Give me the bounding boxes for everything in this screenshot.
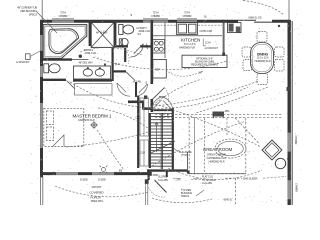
outlet dots xyxy=(93,25,290,126)
window: right wall mid xyxy=(288,133,290,200)
closet shelves xyxy=(140,98,149,166)
great room dashed oval xyxy=(215,139,246,158)
svg-text:OPEN TO ABOVE: OPEN TO ABOVE xyxy=(207,153,227,156)
wall: hall jog lower xyxy=(143,107,152,110)
wall: CLO bottom xyxy=(112,70,126,72)
wall: shower/half-bath divider xyxy=(114,21,116,48)
great room upper dashed lines xyxy=(155,114,283,117)
porch right edge below entry xyxy=(146,184,148,205)
electrical arc porch xyxy=(55,186,148,197)
great room dashed box xyxy=(189,118,259,205)
door: hall to stairs xyxy=(152,96,166,109)
svg-text:D-3050: D-3050 xyxy=(80,178,88,181)
svg-text:6068 SL.GD: 6068 SL.GD xyxy=(249,17,262,20)
leader: 6040 slider to window xyxy=(263,177,286,179)
leader: sloped-flat connector xyxy=(191,178,207,180)
electrical arc dining-greatroom xyxy=(196,87,268,113)
window: top wall w1 xyxy=(52,19,74,22)
electrical arc bath cluster xyxy=(80,48,142,55)
wall: main vertical spine xyxy=(151,21,154,112)
svg-text:ABV: ABV xyxy=(225,110,230,113)
ceiling projection dashes xyxy=(205,118,228,174)
window: left wall upper xyxy=(40,35,42,77)
svg-text:48" DBL VAN: 48" DBL VAN xyxy=(79,62,93,65)
note: porch xyxy=(89,185,104,203)
kitchen west counter edge xyxy=(164,22,166,58)
wall: master bath south (tub room) xyxy=(43,58,72,60)
window: top wall w2 xyxy=(143,19,168,22)
window: bottom wall pair xyxy=(56,173,114,175)
note: top wall chamber labels xyxy=(59,12,262,20)
dining chairs xyxy=(242,32,284,85)
toilet: master WC xyxy=(44,64,60,73)
svg-text:CLG ABV: CLG ABV xyxy=(158,179,169,182)
siding outer line right xyxy=(291,21,293,205)
svg-text:CHMBR: CHMBR xyxy=(151,15,160,18)
svg-text:CLO: CLO xyxy=(136,116,141,119)
electrical arc top right xyxy=(243,1,284,15)
svg-text:KITCHEN: KITCHEN xyxy=(181,38,200,43)
door: kitchen to hall xyxy=(153,88,165,100)
light dot bath xyxy=(79,55,82,58)
note: island xyxy=(191,57,218,74)
svg-text:D-3050: D-3050 xyxy=(98,178,106,181)
electrical arc bath-top xyxy=(122,47,129,64)
scan speckle xyxy=(30,5,303,203)
svg-text:OVHD CAB: OVHD CAB xyxy=(200,30,213,33)
wall: CLO right xyxy=(124,48,126,62)
svg-text:ARDL FLR: ARDL FLR xyxy=(85,52,97,55)
window: left wall hatched band xyxy=(40,103,43,148)
wall: hall center stub xyxy=(135,82,137,97)
svg-text:PRES MTG: PRES MTG xyxy=(91,200,104,203)
svg-text:SPECS: SPECS xyxy=(181,195,189,198)
wall: tub/shower divider xyxy=(89,21,91,46)
door: hall swing b xyxy=(136,84,148,96)
island xyxy=(182,55,227,67)
bed dashed xyxy=(44,108,84,146)
entry switch blob xyxy=(149,172,152,176)
kitchen counter north edge xyxy=(153,35,222,37)
electrical arc greatroom b xyxy=(152,121,246,166)
wall junction marks xyxy=(40,20,290,178)
door: half bath xyxy=(131,44,144,57)
disconnect box xyxy=(26,54,31,60)
ceiling fan xyxy=(90,121,98,129)
svg-text:CARPETD FLR: CARPETD FLR xyxy=(78,119,95,122)
electrical arc bedroom c xyxy=(97,130,124,170)
electrical arc greatroom a xyxy=(155,104,261,147)
corner tub xyxy=(49,29,79,54)
wall: right exterior xyxy=(288,20,291,205)
svg-text:GREAT ROOM: GREAT ROOM xyxy=(203,147,233,152)
front door xyxy=(155,180,167,193)
tv console xyxy=(213,112,225,119)
roofline above top-left corner xyxy=(41,0,43,20)
electrical arc hall-kitchen xyxy=(150,79,202,108)
kitchen sink xyxy=(177,23,198,35)
stairs up arrow xyxy=(155,122,158,152)
note: mbath xyxy=(84,48,96,55)
toilet: half bath xyxy=(119,25,134,35)
svg-text:(TYP): (TYP) xyxy=(181,154,187,157)
svg-text:HARDWD FLR: HARDWD FLR xyxy=(209,160,225,163)
wall: stairs east xyxy=(172,108,174,170)
hall dark mark xyxy=(144,96,147,100)
svg-text:CLO: CLO xyxy=(140,152,145,155)
note: dining xyxy=(255,52,271,62)
svg-text:HARDWD FLR: HARDWD FLR xyxy=(255,60,271,63)
svg-text:CHMBR: CHMBR xyxy=(294,136,297,145)
wall: vanity back xyxy=(73,79,112,81)
shower stall xyxy=(91,22,114,47)
porch edge xyxy=(41,176,43,205)
electrical arc bedroom b xyxy=(66,132,148,147)
electrical arc bedroom a xyxy=(98,108,149,129)
sink: half bath pedestal xyxy=(119,39,128,46)
wall: top exterior xyxy=(40,20,290,23)
tub platform xyxy=(43,25,87,59)
door: WC to hall xyxy=(67,81,76,90)
svg-text:CHMBR: CHMBR xyxy=(183,15,192,18)
note: sloped clg xyxy=(158,151,258,202)
svg-text:SPECS: SPECS xyxy=(29,14,37,17)
door: sliding glass 6068 xyxy=(238,20,272,22)
wall: WC bottom xyxy=(40,79,66,81)
note: right wall chmbr vertical xyxy=(294,136,298,193)
range xyxy=(153,40,165,54)
entry walls xyxy=(147,169,188,171)
svg-text:24T: 24T xyxy=(198,72,203,75)
porch light xyxy=(100,166,108,174)
electrical arc kitchen-island xyxy=(166,70,203,76)
armchair rotated xyxy=(262,140,286,169)
switch glyphs xyxy=(119,13,289,173)
wall: hall jog connector xyxy=(142,101,144,110)
svg-text:3068: 3068 xyxy=(153,174,159,177)
svg-text:w/ DISCNCT: w/ DISCNCT xyxy=(205,47,219,50)
svg-text:48" SHWR: 48" SHWR xyxy=(96,32,108,35)
svg-text:6040 SLIDER: 6040 SLIDER xyxy=(243,178,258,181)
leader: disconnect xyxy=(30,51,41,57)
svg-text:FRONT: FRONT xyxy=(92,185,102,189)
stairs top rail xyxy=(151,109,173,111)
wall: hall jog upper xyxy=(128,101,143,104)
note: corner tub xyxy=(17,7,37,17)
svg-text:12 HI: 12 HI xyxy=(205,42,211,45)
svg-text:MASTER BEDRM 1: MASTER BEDRM 1 xyxy=(73,113,112,118)
leaders for clg notes xyxy=(173,148,204,196)
svg-text:←2-8: ←2-8 xyxy=(174,179,180,182)
svg-text:COVERED: COVERED xyxy=(89,190,104,194)
wall: bedroom bottom exterior xyxy=(40,172,149,175)
wall: closet CLO left xyxy=(111,48,113,81)
svg-text:W CAB: W CAB xyxy=(133,80,141,83)
stairs treads xyxy=(151,113,172,169)
wall: left exterior xyxy=(40,20,43,176)
svg-text:HARDWD FLR: HARDWD FLR xyxy=(179,46,195,49)
wall: stairs west xyxy=(149,113,151,168)
note: kitchen xyxy=(179,38,219,51)
roofline above top-right corner xyxy=(288,0,290,20)
note: half bath xyxy=(136,27,150,36)
refrigerator xyxy=(153,60,167,79)
electrical arc center long xyxy=(70,82,248,108)
electrical arc porch-entry xyxy=(152,198,212,203)
porch post xyxy=(145,179,149,184)
great room south line xyxy=(188,173,247,175)
door: hall swing a xyxy=(117,83,130,96)
kitchen overhead cabinet line xyxy=(154,24,222,26)
svg-text:CLG ABV: CLG ABV xyxy=(202,182,213,185)
bed fold xyxy=(53,135,65,147)
electrical arc kitchen xyxy=(93,57,227,70)
window: kitchen window xyxy=(177,19,197,22)
pantry cabinet at dining xyxy=(228,23,242,33)
dining table xyxy=(251,43,274,74)
electrical arc hall-dining xyxy=(155,81,258,106)
svg-text:6040 SL: 6040 SL xyxy=(224,199,233,202)
dresser below vanity xyxy=(75,84,113,96)
wall: half-bath bottom xyxy=(114,45,152,47)
svg-text:CHMBR: CHMBR xyxy=(59,15,68,18)
window gray bands xyxy=(40,20,290,200)
svg-text:REF: REF xyxy=(155,69,160,72)
note: great room xyxy=(203,147,233,163)
svg-text:REQUIRED BY OTHERS: REQUIRED BY OTHERS xyxy=(191,63,218,66)
door: hall to stairs b xyxy=(159,97,173,111)
leader: tub note xyxy=(37,12,58,34)
kitchen half wall xyxy=(223,22,225,55)
wall: bedroom east / closet xyxy=(137,96,139,168)
electrical arc entry-greatroom xyxy=(168,168,262,180)
svg-text:w/ DISCNCT: w/ DISCNCT xyxy=(16,61,30,64)
vanity double xyxy=(74,66,111,79)
door: CLO xyxy=(126,72,135,81)
stairs break line xyxy=(149,141,175,154)
